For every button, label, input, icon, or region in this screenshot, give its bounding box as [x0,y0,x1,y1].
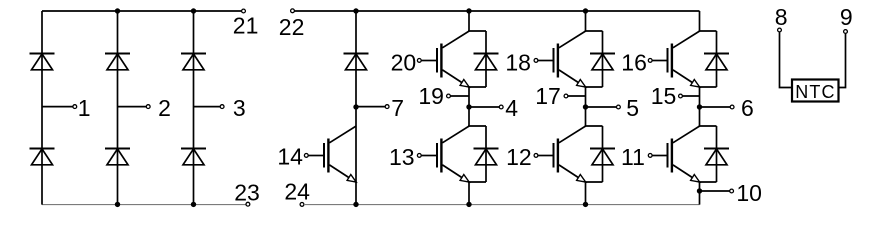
wire leg 11 diode branch bottom [699,181,717,183]
diode freewheel across Q13 [474,149,499,165]
svg-text:22: 22 [279,14,305,40]
svg-text:21: 21 [233,13,259,39]
wire leg 18 diode branch bottom [585,86,603,88]
terminal 12 (gate of Q12) [534,154,538,158]
terminal 9 [844,30,848,34]
junction bottom rail at brake leg [353,202,358,207]
label terminal 18 [505,49,531,75]
label terminal 20 [391,49,417,75]
label terminal 10 [736,180,762,206]
wire leg 20 collector drop [468,11,470,31]
terminal 19 [447,94,451,98]
wire leg 16 diode branch vertical [716,31,718,87]
junction phase node 4 [466,104,471,109]
label terminal 21 [233,13,259,39]
IGBT Q13 (lower) [421,126,469,182]
wire emitter to node [699,87,701,107]
wire leg 20 diode branch bottom [468,86,486,88]
wire AC tap 2 [118,106,147,108]
terminal 8 [778,28,782,32]
wire rectifier leg 2 vertical [117,11,119,205]
svg-text:19: 19 [418,83,444,109]
IGBT Q12 (lower) [538,126,586,182]
wire leg 13 diode branch top [468,125,486,127]
junction top rail at phase U leg [466,8,471,13]
wire phase tap 4 [469,106,499,108]
junction phase node 5 [583,104,588,109]
svg-text:1: 1 [78,95,91,121]
diode freewheel across Q20 [474,54,499,70]
terminal 3 [220,105,224,109]
label terminal 6 [741,95,754,121]
label terminal 23 [234,180,260,206]
wire leg 11 diode branch top [699,125,717,127]
wire brake leg vertical (22 to 24) [355,11,357,205]
terminal 17 [564,94,568,98]
wire tap node 10 [700,190,730,192]
svg-text:16: 16 [621,49,647,75]
junction on bottom rail at leg 3 [191,202,196,207]
terminal 4 [499,105,503,109]
wire leg 13 diode branch vertical [485,126,487,182]
wire leg 12 diode branch vertical [602,126,604,182]
label terminal 8 [775,4,788,30]
label terminal 17 [535,83,561,109]
svg-text:24: 24 [284,179,310,205]
diode freewheel across Q18 [590,54,615,70]
diode rectifier lower D6 [181,149,206,165]
terminal 24 [300,203,304,207]
svg-text:13: 13 [389,144,415,170]
junction on top rail at leg 2 [115,8,120,13]
terminal 21 [242,9,246,13]
IGBT Q16 (upper) [652,31,700,87]
terminal 20 (gate of Q20) [417,59,421,63]
svg-text:18: 18 [505,49,531,75]
IGBT Q11 (lower) [652,126,700,182]
diode freewheel across Q11 [704,149,729,165]
wire phase tap 5 [586,106,617,108]
label terminal 5 [626,95,639,121]
svg-text:5: 5 [626,95,639,121]
diode rectifier upper D1 [30,54,55,70]
junction on bottom rail at leg 2 [115,202,120,207]
terminal 16 (gate of Q16) [648,59,652,63]
svg-text:3: 3 [233,95,246,121]
label terminal 9 [840,4,853,30]
wire emitter of Q12 to -DC rail [585,182,587,205]
terminal 11 (gate of Q11) [648,154,652,158]
wire inverter +DC top rail (node 22) [295,10,700,12]
terminal 10 [730,189,734,193]
IGBT Q18 (upper) [538,31,586,87]
wire leg 13 collector drop [468,107,470,126]
svg-text:4: 4 [505,95,518,121]
svg-text:2: 2 [158,95,171,121]
svg-text:NTC: NTC [795,82,835,102]
wire emitter to node [468,87,470,107]
terminal 23 [246,202,250,206]
label terminal 16 [621,49,647,75]
junction bottom rail at phase U leg [466,202,471,207]
svg-text:20: 20 [391,49,417,75]
wire leg 13 diode branch bottom [468,181,486,183]
diode rectifier lower D4 [30,149,55,165]
terminal 6 [730,105,734,109]
wire leg 12 diode branch top [585,125,603,127]
wire leg 16 collector drop [699,11,701,31]
wire AC tap 1 [42,106,73,108]
label terminal 2 [158,95,171,121]
terminal 7 [385,105,389,109]
wire emitter sense 17 [568,95,586,97]
svg-text:8: 8 [775,4,788,30]
junction bottom rail at phase V leg [583,202,588,207]
label terminal 22 [279,14,305,40]
wire rectifier leg 1 vertical [41,11,43,205]
wire terminal 8 to NTC [780,32,792,88]
label terminal 3 [233,95,246,121]
label terminal 1 [78,95,91,121]
wire leg 16 diode branch top [699,30,717,32]
diode rectifier upper D2 [105,54,130,70]
junction phase node 6 [697,104,702,109]
wire emitter sense 19 [450,95,469,97]
diode brake freewheel (7 to 22) [344,54,369,70]
wire emitter of Q11 to node 10 [699,182,701,205]
label NTC [795,82,835,102]
wire leg 18 diode branch vertical [602,31,604,87]
IGBT Q20 (upper) [421,31,469,87]
wire emitter of Q13 to -DC rail [468,182,470,205]
wire tap node 7 [356,106,385,108]
svg-text:17: 17 [535,83,561,109]
terminal 22 [291,9,295,13]
wire AC tap 3 [194,106,221,108]
wire terminal 9 to NTC [839,33,846,87]
IGBT brake Q14 [308,126,356,182]
svg-text:6: 6 [741,95,754,121]
wire leg 16 diode branch bottom [699,86,717,88]
terminal 15 [679,94,683,98]
svg-text:23: 23 [234,180,260,206]
svg-text:11: 11 [621,144,645,170]
junction node 7 [353,104,358,109]
label terminal 24 [284,179,310,205]
wire phase tap 6 [700,106,731,108]
junction node 10 [697,188,702,193]
terminal 14 (gate of Q14) [304,154,308,158]
junction top rail at brake leg [353,8,358,13]
label terminal 13 [389,144,415,170]
wire leg 12 diode branch bottom [585,181,603,183]
terminal 1 [73,105,77,109]
wire emitter sense 15 [682,95,699,97]
label terminal 12 [506,144,532,170]
label terminal 4 [505,95,518,121]
wire rectifier -DC bottom rail (node 23) [42,204,246,206]
wire leg 18 diode branch top [585,30,603,32]
svg-text:12: 12 [506,144,532,170]
diode rectifier upper D3 [181,54,206,70]
diode freewheel across Q12 [590,149,615,165]
label terminal 11 [621,144,645,170]
junction on top rail at leg 3 [191,8,196,13]
terminal 2 [146,105,150,109]
svg-text:15: 15 [651,83,677,109]
junction top rail at phase V leg [583,8,588,13]
terminal 13 (gate of Q13) [417,154,421,158]
wire leg 12 collector drop [585,107,587,126]
diode rectifier lower D5 [105,149,130,165]
diode freewheel across Q16 [704,54,729,70]
terminal 5 [617,105,621,109]
thermistor NTC box [792,80,839,102]
label terminal 14 [277,144,303,170]
wire leg 20 diode branch vertical [485,31,487,87]
label terminal 15 [651,83,677,109]
svg-text:9: 9 [840,4,853,30]
label terminal 19 [418,83,444,109]
wire rectifier +DC top rail (node 21) [42,10,242,12]
label terminal 7 [391,95,404,121]
wire leg 11 collector drop [699,107,701,126]
wire leg 20 diode branch top [468,30,486,32]
svg-text:7: 7 [391,95,404,121]
svg-text:10: 10 [736,180,762,206]
wire leg 11 diode branch vertical [716,126,718,182]
wire emitter to node [585,87,587,107]
terminal 18 (gate of Q18) [534,59,538,63]
svg-text:14: 14 [277,144,303,170]
wire inverter -DC bottom rail (node 24) [304,204,700,206]
wire leg 18 collector drop [585,11,587,31]
wire rectifier leg 3 vertical [193,11,195,205]
